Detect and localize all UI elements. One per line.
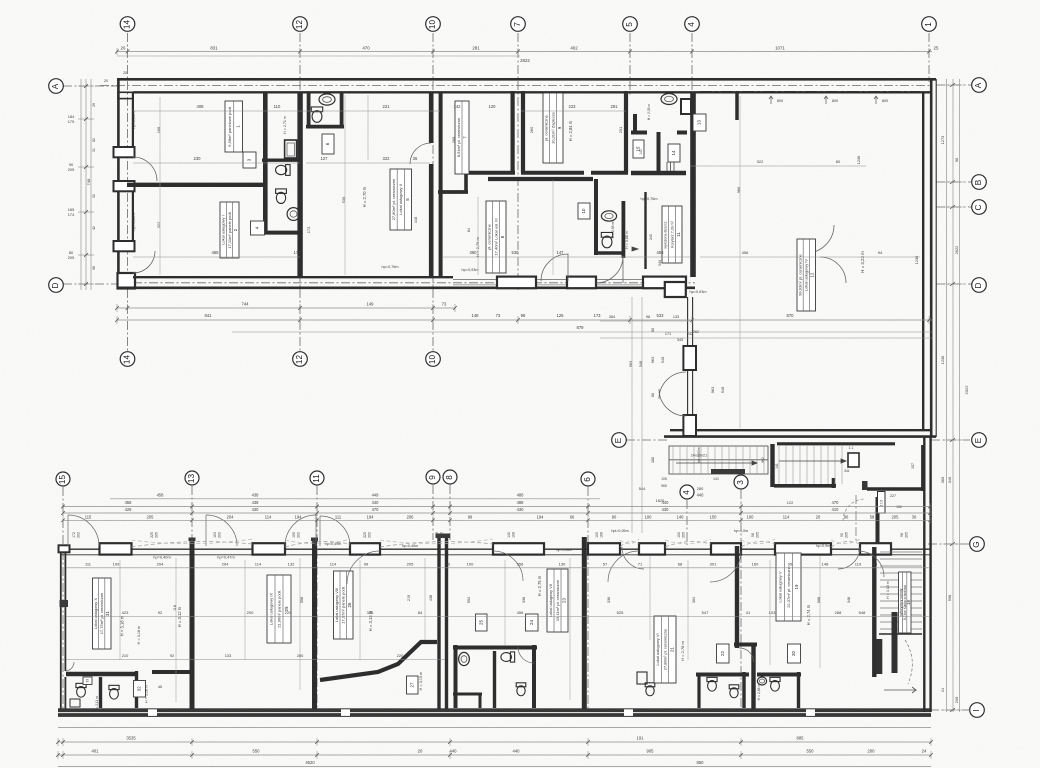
svg-text:130: 130: [559, 562, 566, 567]
svg-text:470: 470: [372, 507, 380, 512]
svg-text:8: 8: [445, 475, 454, 480]
svg-text:10: 10: [428, 20, 437, 30]
svg-text:27,80m² pł. ceramiczne: 27,80m² pł. ceramiczne: [391, 178, 396, 220]
svg-text:hp=1,08m: hp=1,08m: [556, 548, 573, 552]
svg-text:11: 11: [312, 474, 321, 483]
svg-text:430: 430: [662, 507, 670, 512]
svg-text:200: 200: [247, 610, 254, 615]
svg-text:98: 98: [900, 533, 904, 537]
svg-text:3535: 3535: [126, 736, 136, 741]
svg-text:Lokal usługowy I: Lokal usługowy I: [221, 215, 226, 245]
svg-text:58: 58: [92, 266, 96, 270]
svg-text:336: 336: [607, 597, 611, 603]
svg-text:905: 905: [647, 749, 655, 754]
svg-text:58: 58: [870, 514, 875, 519]
svg-text:33: 33: [86, 679, 90, 683]
svg-text:205: 205: [845, 532, 849, 538]
svg-text:G: G: [972, 541, 981, 547]
svg-text:1236: 1236: [914, 256, 919, 265]
svg-text:19: 19: [794, 584, 799, 589]
svg-text:99,93m² pł. ceramiczne: 99,93m² pł. ceramiczne: [797, 253, 802, 295]
svg-text:71: 71: [638, 562, 643, 567]
svg-text:H = 2,56 m: H = 2,56 m: [611, 221, 615, 238]
svg-text:hp=0,60m: hp=0,60m: [697, 447, 701, 463]
svg-text:13: 13: [187, 474, 196, 484]
svg-text:194: 194: [537, 514, 545, 519]
svg-text:227: 227: [890, 494, 896, 498]
svg-text:31: 31: [92, 148, 96, 152]
svg-text:Lokal usługowy VI: Lokal usługowy VI: [655, 633, 660, 665]
svg-text:2822: 2822: [520, 58, 530, 63]
svg-text:hp=0,76m: hp=0,76m: [382, 265, 399, 269]
svg-text:hp=0,49m: hp=0,49m: [402, 544, 419, 548]
svg-text:115: 115: [85, 514, 92, 519]
svg-text:548: 548: [660, 357, 665, 364]
svg-text:172: 172: [72, 532, 76, 538]
svg-text:95: 95: [788, 562, 793, 567]
svg-text:206: 206: [407, 514, 415, 519]
svg-text:1273: 1273: [940, 136, 945, 145]
svg-text:12: 12: [295, 355, 304, 365]
svg-text:21,96m² panele podł.: 21,96m² panele podł.: [276, 590, 281, 628]
svg-text:pł. ceramiczne: pł. ceramiczne: [544, 114, 549, 141]
svg-text:230: 230: [194, 156, 202, 161]
svg-text:879: 879: [577, 325, 585, 330]
svg-text:260: 260: [529, 126, 534, 133]
svg-text:114: 114: [330, 562, 337, 567]
svg-text:208: 208: [954, 697, 959, 704]
svg-text:17,11m² panele podł.: 17,11m² panele podł.: [227, 211, 232, 248]
svg-text:88: 88: [651, 393, 655, 397]
svg-text:470: 470: [362, 46, 370, 51]
svg-text:C: C: [974, 204, 983, 210]
svg-text:66: 66: [570, 514, 575, 519]
svg-text:103: 103: [769, 610, 776, 615]
svg-text:30: 30: [912, 514, 917, 519]
svg-text:27,88m² pł. ceramiczne: 27,88m² pł. ceramiczne: [662, 628, 667, 670]
svg-text:423: 423: [122, 610, 129, 615]
svg-text:I: I: [972, 709, 981, 711]
svg-text:291: 291: [618, 127, 623, 134]
svg-text:440: 440: [450, 749, 458, 754]
svg-text:550: 550: [253, 749, 261, 754]
svg-text:25: 25: [123, 71, 127, 75]
svg-text:885: 885: [797, 736, 805, 741]
svg-text:109: 109: [113, 562, 120, 567]
svg-text:27: 27: [409, 682, 414, 687]
svg-text:548: 548: [720, 387, 725, 394]
svg-text:147: 147: [557, 250, 565, 255]
svg-text:841: 841: [205, 313, 213, 318]
svg-text:554: 554: [467, 597, 471, 603]
svg-text:14: 14: [123, 355, 132, 365]
svg-text:100: 100: [595, 532, 599, 538]
svg-text:200: 200: [297, 653, 304, 658]
svg-text:E: E: [614, 437, 623, 443]
svg-text:hp=0,40m: hp=0,40m: [153, 555, 170, 560]
svg-text:H = 3,88 m: H = 3,88 m: [625, 231, 629, 249]
svg-text:Lokal usługowy VIII: Lokal usługowy VIII: [334, 588, 339, 622]
svg-text:205: 205: [68, 167, 75, 172]
svg-text:114: 114: [783, 514, 790, 519]
svg-text:800: 800: [832, 99, 838, 103]
svg-text:H = 2,70 m: H = 2,70 m: [362, 186, 367, 207]
svg-text:hp=1,0m: hp=1,0m: [734, 529, 748, 533]
svg-text:20: 20: [816, 514, 821, 519]
svg-text:544: 544: [658, 260, 662, 266]
svg-text:H = 3,15 m: H = 3,15 m: [419, 672, 423, 691]
svg-text:168: 168: [600, 532, 604, 538]
svg-text:143: 143: [639, 149, 643, 155]
svg-text:458: 458: [125, 500, 133, 505]
svg-text:126: 126: [557, 313, 565, 318]
svg-text:288: 288: [835, 610, 842, 615]
svg-text:410: 410: [832, 507, 840, 512]
svg-text:186: 186: [896, 505, 902, 509]
svg-text:204: 204: [222, 562, 229, 567]
svg-text:25: 25: [478, 620, 483, 625]
svg-text:36: 36: [413, 156, 418, 161]
svg-text:141: 141: [775, 463, 779, 469]
svg-text:448: 448: [413, 217, 418, 224]
svg-text:173: 173: [594, 313, 602, 318]
svg-text:440: 440: [372, 500, 380, 505]
svg-text:98: 98: [954, 158, 959, 162]
svg-text:204: 204: [227, 514, 235, 519]
svg-text:99: 99: [364, 562, 369, 567]
svg-text:240: 240: [649, 234, 653, 240]
svg-text:52: 52: [92, 194, 96, 198]
svg-text:68: 68: [678, 562, 683, 567]
svg-text:10: 10: [581, 208, 586, 213]
svg-text:31: 31: [105, 611, 110, 616]
svg-text:3: 3: [736, 480, 745, 485]
svg-text:205: 205: [68, 255, 75, 260]
svg-text:956: 956: [517, 562, 524, 567]
svg-text:205: 205: [155, 532, 159, 538]
svg-text:548: 548: [859, 610, 866, 615]
svg-text:D: D: [51, 282, 60, 288]
svg-text:173: 173: [306, 227, 311, 234]
svg-text:205: 205: [435, 532, 439, 538]
svg-text:438: 438: [429, 595, 433, 601]
svg-text:148: 148: [472, 313, 480, 318]
svg-text:90: 90: [840, 533, 844, 537]
svg-text:288: 288: [451, 137, 456, 144]
svg-text:24: 24: [529, 620, 534, 625]
svg-text:82: 82: [92, 138, 96, 142]
svg-text:148: 148: [822, 562, 829, 567]
svg-text:10,31m² Zaplecze: 10,31m² Zaplecze: [550, 111, 555, 144]
svg-text:12: 12: [810, 272, 815, 277]
svg-text:449: 449: [372, 492, 380, 497]
svg-text:Lokal usługowy X: Lokal usługowy X: [93, 598, 98, 629]
svg-text:2622: 2622: [954, 246, 959, 255]
svg-text:530: 530: [512, 250, 520, 255]
svg-text:23: 23: [562, 598, 567, 603]
svg-text:800: 800: [882, 99, 888, 103]
svg-text:11: 11: [676, 232, 681, 237]
svg-text:205: 205: [407, 562, 414, 567]
svg-text:99: 99: [468, 514, 473, 519]
svg-text:90: 90: [844, 514, 849, 519]
svg-text:wyłożona deszcz.: wyłożona deszcz.: [664, 220, 668, 248]
svg-text:9: 9: [428, 475, 437, 480]
svg-text:205: 205: [892, 514, 900, 519]
svg-text:157: 157: [911, 463, 915, 469]
svg-text:29: 29: [92, 103, 96, 107]
svg-text:544: 544: [639, 486, 646, 491]
svg-text:965: 965: [661, 484, 667, 488]
svg-text:438: 438: [252, 500, 260, 505]
svg-text:364: 364: [692, 597, 696, 603]
svg-text:Lokal usługowy VII: Lokal usługowy VII: [548, 584, 553, 617]
svg-text:122: 122: [787, 500, 794, 505]
svg-text:111: 111: [335, 514, 342, 519]
svg-text:533: 533: [657, 313, 665, 318]
svg-text:558: 558: [300, 597, 304, 603]
svg-text:328: 328: [367, 610, 374, 615]
svg-text:H = 2,11 m: H = 2,11 m: [95, 696, 99, 712]
svg-text:15: 15: [58, 475, 67, 485]
svg-text:8,54m² pł. ceramiczne: 8,54m² pł. ceramiczne: [456, 117, 461, 157]
svg-text:Lokal usługowy V: Lokal usługowy V: [778, 571, 783, 602]
svg-text:1: 1: [924, 22, 933, 27]
svg-text:150: 150: [710, 514, 718, 519]
svg-text:10: 10: [428, 355, 437, 365]
svg-text:1236: 1236: [856, 156, 861, 165]
svg-text:141: 141: [713, 477, 719, 481]
svg-text:24: 24: [922, 749, 927, 754]
svg-text:H = 2,75 m: H = 2,75 m: [537, 575, 542, 596]
svg-text:58: 58: [751, 533, 755, 537]
svg-text:205: 205: [682, 532, 686, 538]
svg-text:188: 188: [651, 457, 655, 463]
svg-text:H = 2,05 m: H = 2,05 m: [647, 104, 651, 120]
svg-text:26: 26: [121, 46, 126, 51]
svg-text:430: 430: [517, 507, 525, 512]
svg-text:175: 175: [68, 119, 75, 124]
svg-text:465: 465: [212, 250, 220, 255]
svg-text:17,75m² pł. ceramiczne: 17,75m² pł. ceramiczne: [99, 592, 104, 634]
svg-text:430: 430: [252, 507, 260, 512]
svg-text:174: 174: [68, 212, 75, 217]
svg-text:12: 12: [295, 20, 304, 30]
svg-text:H = 2,84 m: H = 2,84 m: [568, 120, 573, 141]
svg-text:210: 210: [122, 653, 129, 658]
svg-text:205: 205: [756, 532, 760, 538]
svg-text:225: 225: [363, 532, 367, 538]
svg-text:pł. ceramiczne: pł. ceramiczne: [487, 223, 492, 250]
svg-text:220: 220: [285, 610, 292, 615]
svg-text:92: 92: [158, 610, 163, 615]
svg-text:4: 4: [687, 22, 696, 27]
svg-text:17,40m² Lokal usł. III: 17,40m² Lokal usł. III: [493, 218, 498, 255]
svg-text:194: 194: [295, 514, 303, 519]
svg-text:114: 114: [265, 514, 272, 519]
svg-text:219: 219: [407, 595, 411, 601]
svg-text:42: 42: [92, 226, 96, 230]
svg-text:149: 149: [367, 302, 375, 307]
svg-text:133: 133: [673, 315, 679, 319]
svg-text:456: 456: [517, 610, 524, 615]
svg-text:A: A: [51, 83, 60, 89]
svg-text:wyłożywszy schody: wyłożywszy schody: [899, 588, 903, 616]
svg-text:171: 171: [665, 332, 671, 336]
svg-text:118: 118: [173, 605, 177, 611]
svg-text:98: 98: [646, 315, 650, 319]
svg-text:223: 223: [569, 104, 577, 109]
svg-text:205: 205: [905, 532, 909, 538]
svg-text:H = 2,86 m: H = 2,86 m: [757, 683, 761, 700]
svg-text:105: 105: [292, 532, 296, 538]
svg-text:110: 110: [274, 104, 281, 109]
svg-text:963: 963: [650, 357, 655, 364]
svg-text:H = 3,23 m: H = 3,23 m: [860, 251, 865, 273]
svg-text:458: 458: [157, 492, 165, 497]
svg-text:5: 5: [625, 22, 634, 27]
svg-text:429: 429: [125, 507, 133, 512]
svg-text:Lokal usługowy II: Lokal usługowy II: [398, 184, 403, 215]
svg-text:205: 205: [147, 514, 155, 519]
svg-text:1.1: 1.1: [849, 446, 854, 450]
svg-text:440: 440: [697, 492, 705, 497]
svg-text:103: 103: [213, 532, 217, 538]
svg-text:D: D: [974, 282, 983, 288]
svg-text:525: 525: [617, 610, 624, 615]
svg-text:831: 831: [210, 46, 218, 51]
svg-text:hpi=0,95m: hpi=0,95m: [611, 529, 628, 533]
svg-text:92: 92: [170, 653, 174, 658]
svg-text:280: 280: [697, 486, 704, 491]
svg-text:568: 568: [817, 597, 821, 603]
svg-text:73: 73: [496, 313, 501, 318]
svg-text:963: 963: [710, 387, 715, 394]
svg-text:1620: 1620: [656, 498, 665, 503]
svg-text:H = 2,78 m: H = 2,78 m: [680, 641, 685, 661]
svg-text:6,58m² panelowe podł.: 6,58m² panelowe podł.: [227, 106, 232, 146]
svg-text:401: 401: [92, 749, 100, 754]
svg-text:41: 41: [746, 610, 751, 615]
svg-text:32: 32: [137, 686, 142, 691]
svg-text:E: E: [974, 437, 983, 443]
svg-text:202: 202: [218, 532, 222, 538]
svg-text:17,07m² panele podł.: 17,07m² panele podł.: [341, 586, 346, 624]
svg-text:13: 13: [697, 120, 702, 125]
svg-text:438: 438: [252, 492, 260, 497]
svg-text:598: 598: [947, 595, 952, 602]
svg-text:100: 100: [645, 514, 653, 519]
svg-text:20: 20: [418, 749, 423, 754]
svg-text:322: 322: [757, 159, 764, 164]
svg-text:100: 100: [440, 532, 444, 538]
svg-text:20: 20: [104, 79, 108, 83]
svg-text:d8: d8: [158, 685, 162, 689]
svg-text:322: 322: [383, 156, 391, 161]
svg-text:14: 14: [671, 150, 676, 155]
svg-text:8,74m² Klatka schodowa: 8,74m² Klatka schodowa: [903, 585, 907, 620]
svg-text:B: B: [974, 179, 983, 185]
svg-text:242: 242: [687, 332, 693, 336]
svg-text:57: 57: [603, 562, 608, 567]
svg-text:A: A: [974, 82, 983, 88]
svg-text:408: 408: [197, 104, 205, 109]
svg-text:291: 291: [611, 104, 619, 109]
svg-text:H = 3,18 m: H = 3,18 m: [137, 626, 141, 645]
svg-text:119: 119: [855, 562, 862, 567]
svg-text:133: 133: [225, 653, 232, 658]
svg-text:30: 30: [446, 562, 451, 567]
svg-text:22,37m² pł. ceramiczne: 22,37m² pł. ceramiczne: [786, 565, 791, 607]
svg-text:1236: 1236: [940, 356, 945, 365]
svg-text:364: 364: [609, 315, 615, 319]
svg-text:hp=0,9m: hp=0,9m: [816, 544, 830, 548]
svg-text:6: 6: [583, 477, 592, 482]
svg-text:202: 202: [77, 532, 81, 538]
svg-text:262: 262: [693, 330, 699, 334]
svg-text:H = 3,10 m: H = 3,10 m: [886, 581, 890, 599]
svg-text:120: 120: [489, 104, 497, 109]
svg-text:100: 100: [677, 532, 681, 538]
svg-text:440: 440: [513, 749, 521, 754]
svg-text:H = 2,71 m: H = 2,71 m: [283, 116, 287, 134]
svg-text:88: 88: [651, 328, 655, 332]
svg-text:hp=0,47m: hp=0,47m: [217, 555, 234, 560]
svg-text:Korytarz 7,39 m²: Korytarz 7,39 m²: [670, 220, 674, 247]
svg-text:547: 547: [702, 610, 709, 615]
svg-text:hp=0,93m: hp=0,93m: [690, 290, 707, 294]
svg-text:19,11m² pł. ceramiczne: 19,11m² pł. ceramiczne: [555, 579, 560, 621]
svg-text:194: 194: [367, 514, 375, 519]
svg-text:Lokal usługowy IX: Lokal usługowy IX: [268, 593, 273, 626]
svg-text:84: 84: [418, 610, 423, 615]
svg-text:281: 281: [472, 46, 480, 51]
svg-text:hp=0,93m: hp=0,93m: [462, 268, 479, 272]
svg-text:548: 548: [639, 361, 643, 367]
svg-text:2022: 2022: [964, 385, 969, 395]
svg-text:348: 348: [847, 597, 851, 603]
svg-text:132: 132: [288, 562, 295, 567]
svg-text:402: 402: [570, 46, 578, 51]
svg-text:127: 127: [321, 156, 329, 161]
svg-text:360: 360: [470, 250, 478, 255]
svg-text:341: 341: [844, 469, 850, 473]
svg-text:98: 98: [521, 313, 526, 318]
svg-text:142: 142: [454, 104, 462, 109]
svg-text:140: 140: [507, 532, 511, 538]
svg-text:301: 301: [710, 562, 717, 567]
svg-text:90: 90: [612, 514, 617, 519]
svg-text:20: 20: [791, 651, 796, 656]
svg-text:114: 114: [255, 562, 262, 567]
svg-text:hp=6,33m: hp=6,33m: [131, 111, 136, 128]
svg-text:204: 204: [157, 562, 164, 567]
svg-text:456: 456: [657, 250, 665, 255]
svg-text:488: 488: [517, 492, 525, 497]
svg-text:4: 4: [682, 490, 691, 495]
svg-text:17,6: 17,6: [880, 500, 884, 506]
svg-text:191: 191: [637, 736, 645, 741]
svg-text:Lokal usługowy IV: Lokal usługowy IV: [804, 259, 809, 292]
svg-text:488: 488: [517, 500, 525, 505]
svg-text:225: 225: [150, 532, 154, 538]
svg-text:456: 456: [742, 250, 749, 255]
svg-text:160: 160: [752, 562, 759, 567]
svg-text:hp=4,32m: hp=4,32m: [131, 213, 136, 230]
svg-text:1071: 1071: [775, 46, 785, 51]
svg-text:14: 14: [123, 20, 132, 30]
svg-text:108: 108: [512, 532, 516, 538]
